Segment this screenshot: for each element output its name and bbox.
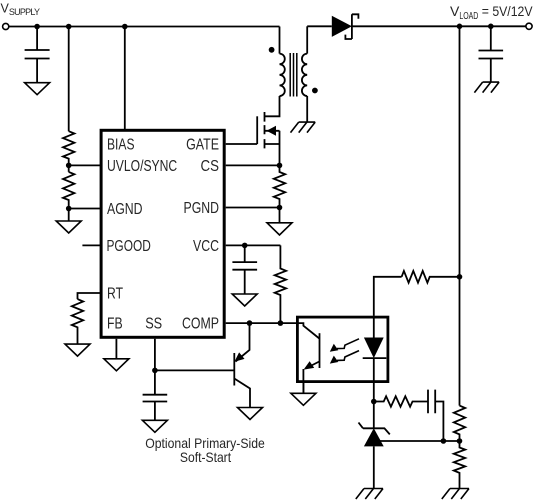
wire: AGND net (69, 209, 100, 222)
junction dot load/C3 (488, 24, 494, 30)
ground G3 (267, 223, 292, 235)
wire: UVLO/SYNC net (69, 165, 100, 172)
optocoupler light arrow 2 (330, 351, 359, 364)
svg-text:VLOAD = 5V/12V: VLOAD = 5V/12V (450, 3, 533, 22)
junction dot C4/REF (441, 438, 447, 444)
ground G5 earth secondary (291, 122, 316, 133)
resistor R10 lower fb divider (454, 441, 465, 489)
capacitor C5 soft start (143, 370, 168, 420)
pin label VCC (193, 238, 219, 255)
pin label PGND (184, 200, 220, 217)
terminal VSUPPLY (3, 23, 9, 29)
svg-text:AGND: AGND (107, 201, 143, 218)
caption line 1 (145, 435, 265, 451)
junction dot opto feed (457, 274, 463, 280)
svg-text:BIAS: BIAS (107, 137, 135, 154)
wire: RT pin (78, 293, 101, 299)
ground G4 (232, 294, 257, 306)
junction dot supply/divider (66, 24, 72, 30)
resistor R5 RT (72, 299, 83, 344)
svg-text:GATE: GATE (186, 137, 219, 154)
junction dot COMP/Q1 (247, 320, 253, 326)
wire: VLOAD divider vertical (459, 26, 461, 405)
zener D2 TL431 (359, 402, 390, 489)
pin label GATE (186, 137, 219, 154)
ground G1 (25, 83, 50, 95)
wire: divider drop (68, 27, 70, 132)
pin label RT (107, 285, 123, 302)
resistor R3 current sense (274, 165, 285, 207)
ground G2 (56, 221, 81, 233)
wire: CS net (226, 164, 280, 166)
pin label CS (201, 158, 220, 175)
junction dot AGND (66, 206, 72, 212)
optocoupler light arrow 1 (330, 339, 359, 352)
junction dot UVLO (66, 163, 72, 169)
polarity dot primary (269, 47, 275, 53)
wire: SS pin (155, 339, 235, 371)
svg-text:VSUPPLY: VSUPPLY (1, 2, 41, 18)
capacitor C3 output (479, 26, 504, 82)
wire: PGND to ground (279, 208, 281, 223)
transistor M1 NMOS (257, 96, 279, 165)
junction dot LED node (371, 399, 377, 405)
wire: BIAS feed (124, 27, 126, 130)
label VSUPPLY (1, 2, 41, 18)
wire: opto feed (374, 277, 402, 316)
transformer T1 secondary (302, 26, 307, 122)
diode D1 Schottky (307, 14, 526, 39)
ground G13 (65, 344, 90, 356)
caption line 2 (180, 449, 231, 465)
pin label FB (107, 315, 123, 332)
wire: COMP net (226, 322, 296, 324)
svg-text:PGND: PGND (184, 200, 220, 217)
pin label AGND (107, 201, 143, 218)
resistor R2 (63, 172, 74, 209)
wire: REF line (374, 440, 460, 442)
pin label COMP (182, 315, 219, 332)
junction dot supply/BIAS (122, 24, 128, 30)
terminal VLOAD (526, 23, 532, 29)
junction dot SS (152, 368, 158, 374)
ground G7 (291, 393, 316, 405)
wire: VCC net (226, 244, 281, 246)
pin label PGOOD (107, 238, 151, 255)
label VLOAD (450, 3, 533, 22)
wire: FB pin (115, 339, 117, 359)
polarity dot secondary (312, 88, 318, 94)
ground G8 earth zener (356, 489, 383, 500)
junction dot PGND (277, 205, 283, 211)
ground G10 (104, 359, 129, 371)
capacitor C2 VCC bypass (232, 245, 257, 294)
optocoupler U2 phototransistor (296, 323, 320, 393)
svg-text:Soft-Start: Soft-Start (180, 449, 231, 465)
wire: PGOOD stub (82, 244, 100, 246)
pin label SS (145, 315, 162, 332)
optocoupler U2 box (297, 317, 388, 382)
ground G9 earth divider (442, 489, 469, 500)
IC U1 box (101, 130, 224, 337)
svg-text:COMP: COMP (182, 315, 219, 332)
junction dot VCC (242, 243, 248, 249)
svg-text:UVLO/SYNC: UVLO/SYNC (107, 158, 177, 175)
resistor R1 (63, 131, 74, 165)
svg-text:RT: RT (107, 285, 123, 302)
ground G12 (238, 408, 263, 420)
optocoupler U2 LED (363, 316, 387, 402)
junction dot load/Rdiv (457, 24, 463, 30)
transistor Q1 PNP (234, 323, 250, 407)
ground G11 (142, 420, 167, 432)
ground G6 earth output (474, 82, 499, 93)
transformer T1 core (290, 53, 297, 97)
wire: PGND net (226, 207, 280, 209)
pin label BIAS (107, 137, 135, 154)
junction dot COMP/R4 (278, 320, 284, 326)
resistor R4 VCC-COMP (275, 245, 286, 323)
wire: GATE net (226, 143, 258, 145)
svg-text:PGOOD: PGOOD (107, 238, 151, 255)
svg-text:CS: CS (201, 158, 220, 175)
wire: opto emitter to ground (302, 382, 304, 394)
transformer T1 primary (280, 27, 285, 96)
svg-text:VCC: VCC (193, 238, 219, 255)
junction dot REF/divider (457, 438, 463, 444)
capacitor C4 snubber (428, 390, 443, 441)
svg-text:FB: FB (107, 315, 123, 332)
resistor R7 opto series (402, 271, 460, 283)
junction dot CS (277, 163, 283, 169)
svg-text:SS: SS (145, 315, 162, 332)
junction dot supply/C1 (34, 24, 40, 30)
pin label UVLO/SYNC (107, 158, 177, 175)
resistor R8 snubber (374, 396, 428, 406)
wire: supply rail (9, 26, 280, 28)
resistor R9 upper fb divider (454, 406, 465, 441)
capacitor C1 input (25, 27, 50, 83)
